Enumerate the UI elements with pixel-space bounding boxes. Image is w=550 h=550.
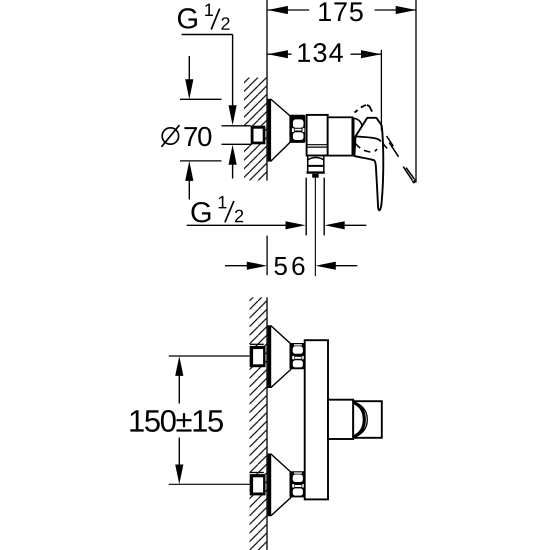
supply pipe (top figure) xyxy=(222,125,251,127)
dome thin arc xyxy=(354,402,368,438)
Ø70 text xyxy=(162,128,178,144)
lever raised position dashes (blade) xyxy=(387,136,394,146)
dome arcs xyxy=(355,118,363,138)
escutcheon flange (top figure) xyxy=(268,99,271,160)
hose nipple xyxy=(312,174,319,178)
escutcheon cone 1 (bottom figure) xyxy=(268,326,290,387)
supply pipe mask xyxy=(222,127,251,144)
shower hose outer lines xyxy=(305,178,307,236)
escutcheon cone (top figure) xyxy=(268,99,290,160)
escutcheon cone 2 (bottom figure) xyxy=(268,454,290,515)
label G 1/2 bottom xyxy=(191,202,210,223)
outlet under body (top figure) xyxy=(307,155,309,173)
label G 1/2 top xyxy=(178,8,197,29)
fraction numerator 1 (top label) xyxy=(205,4,213,16)
lever handle solid (top figure) xyxy=(354,118,383,210)
text 56 xyxy=(274,257,304,275)
cartridge housing (bottom figure) xyxy=(328,400,353,439)
fraction denominator 2 (top label) xyxy=(221,17,229,30)
valve body block 1 (top figure) xyxy=(307,115,328,156)
wall hatching (bottom figure) xyxy=(250,297,268,550)
union nut 2 (bottom figure) xyxy=(290,471,306,497)
dome base thick edge xyxy=(352,117,354,155)
union nut (top figure) xyxy=(289,115,305,143)
dimension 175 xyxy=(415,0,417,183)
line above square 2 xyxy=(250,472,264,474)
dimension 134 xyxy=(268,53,292,55)
extension line to inlet 1 xyxy=(169,355,250,357)
fraction numerator 1 (bottom label) xyxy=(219,196,227,208)
lever raised position dashes (grip) xyxy=(355,110,358,113)
knob (bottom figure) xyxy=(353,401,382,438)
small curl at blade right xyxy=(383,143,388,149)
supply union square (top figure) xyxy=(251,126,266,145)
extension line to inlet 2 xyxy=(169,483,250,485)
extension line of 134 over handle xyxy=(380,50,382,131)
cartridge housing block 2 (top figure) xyxy=(328,117,353,155)
leader G1/2 bottom with arrow to hose xyxy=(187,224,286,226)
text 150±15 xyxy=(130,410,223,432)
hose center line xyxy=(314,178,316,277)
dome thick arc xyxy=(353,402,364,437)
leader G1/2 top xyxy=(182,34,233,36)
wall hatching (top figure) xyxy=(244,78,267,181)
dimension 150±15 xyxy=(175,356,183,376)
mixer body bar (bottom figure) xyxy=(305,340,328,499)
fraction denominator 2 (bottom label) xyxy=(235,210,243,223)
wall line (bottom figure) xyxy=(266,297,268,550)
opposing arrow below pipe xyxy=(229,145,237,165)
supply square 1 xyxy=(250,346,266,367)
grip bottom edge internal line xyxy=(356,137,381,142)
body seam lines xyxy=(307,144,328,146)
dimension Ø70 xyxy=(180,98,222,100)
wall line (top figure) xyxy=(266,0,268,181)
line above square 1 xyxy=(250,343,264,345)
dimension 56 xyxy=(266,236,268,276)
supply square 2 xyxy=(250,474,266,495)
lever raised position dashed arc under grip xyxy=(355,144,377,152)
union nut 1 (bottom figure) xyxy=(290,343,306,369)
text 70 xyxy=(184,127,211,146)
raised blade tip loop xyxy=(413,180,416,183)
